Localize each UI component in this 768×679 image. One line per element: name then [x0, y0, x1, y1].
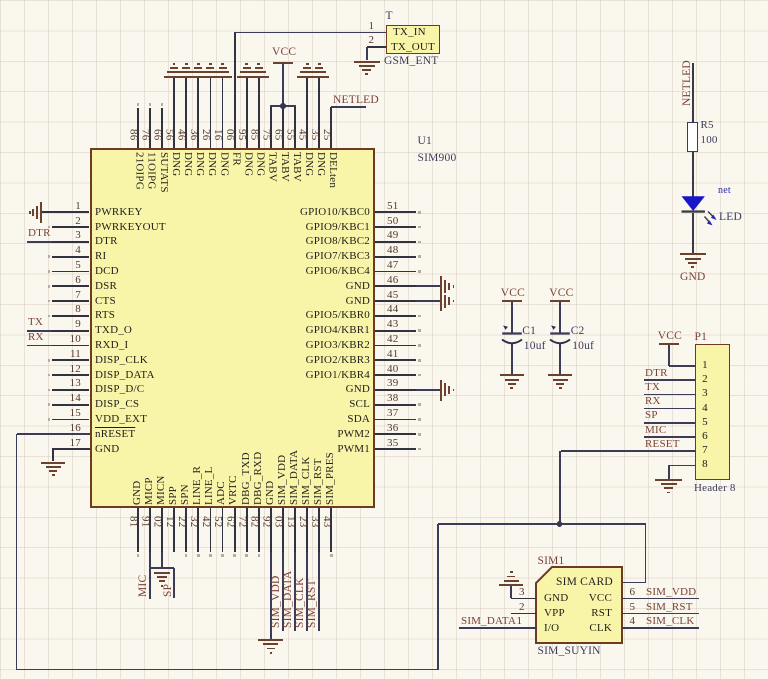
U1 pin 25 ADC	[222, 508, 224, 552]
node SIM_DATA label	[283, 571, 297, 628]
SIM CARD title	[556, 577, 613, 589]
ground (U1 pins 46,45)	[440, 276, 442, 311]
P1 pin 1	[700, 360, 710, 371]
U1 pin 42 GPIO3/KBR2	[375, 345, 416, 347]
U1 pin 17 GND	[52, 448, 89, 450]
U1 pin 24 LINE_L	[210, 508, 212, 552]
connector P1 body	[695, 344, 730, 480]
U1 pin 40 GPIO1/KBR4	[375, 374, 416, 376]
wire U1 pin39 to ground	[416, 389, 441, 391]
U1 pin 2 PWRKEYOUT	[52, 226, 89, 228]
U1 pin 33 SIM_RST	[318, 508, 320, 552]
connector T designator	[386, 11, 393, 23]
power VCC (VBAT)	[272, 47, 296, 59]
node SIM_VDD label	[271, 577, 285, 628]
U1 pin 28 DBG_RXD	[258, 508, 260, 552]
node TX label	[28, 317, 43, 328]
U1 pin 45 GND	[375, 300, 416, 302]
node DTR label	[28, 228, 51, 239]
U1 pin 38 SCL	[375, 404, 416, 406]
wire SIM_CLK (U1 pin 32)	[306, 552, 308, 631]
U1 pin 3 DTR	[52, 241, 89, 243]
wire MIC to P1 pin 6	[644, 436, 695, 438]
ground (C1)	[500, 374, 524, 376]
node SP label (P1)	[645, 410, 658, 421]
U1 pin 56 VBAT	[282, 106, 284, 148]
T pin 2 TX_OUT	[369, 35, 375, 46]
U1 pin 13 DISP_D/C	[52, 389, 89, 391]
wire P1 pin8 to ground	[669, 465, 695, 467]
pin end dots	[48, 226, 51, 229]
ground (LED)	[680, 253, 706, 255]
SIM_SUYIN label	[538, 646, 601, 658]
U1 pin 64 GND	[185, 77, 187, 148]
P1 pin 7	[700, 445, 710, 456]
U1 pin 48 GPIO7/KBC3	[375, 256, 416, 258]
U1 pin 26 VRTC	[234, 508, 236, 552]
U1 pin 68 GPIO12	[137, 108, 139, 148]
SIM1 pin 4 CLK	[622, 627, 700, 629]
ground (U1 pin 29)	[258, 639, 283, 641]
U1 pin 1 PWRKEY	[52, 211, 89, 213]
node DTR label (P1)	[645, 368, 668, 379]
ground (U1 top pins 65, 64, 63, 62, 61)	[164, 76, 232, 78]
node SIM_DATA label	[461, 616, 516, 627]
U1 pin 52 netLED	[330, 107, 332, 148]
node GSM_ENT label	[384, 56, 438, 68]
wire U1 pin17 GND down	[53, 448, 90, 450]
U1 pin 46 GND	[375, 285, 416, 287]
wire RX to P1 pin 4	[644, 408, 695, 410]
node MIC label	[138, 572, 152, 597]
U1 value label SIM900	[418, 153, 457, 165]
U1 pin 50 GPIO9/KBC1	[375, 226, 416, 228]
SIM1 pin 3 GND	[519, 587, 525, 598]
node TX label (P1)	[645, 382, 660, 393]
power VCC (C1)	[501, 288, 525, 300]
connector P1 designator	[695, 332, 708, 344]
wire nRESET left vertical	[16, 434, 18, 669]
connector SIM1 designator	[538, 556, 565, 568]
wire RESET up to P1 pin7	[559, 451, 561, 524]
P1 pin 5	[700, 417, 710, 428]
node LED label	[719, 212, 742, 224]
ground (T pin 2)	[354, 61, 380, 63]
wire RESET horizontal to SIM	[438, 523, 647, 525]
U1 pin 65 GND	[173, 77, 175, 148]
connector SIM1 body (SIM CARD)	[535, 566, 624, 645]
U1 pin 55 VBAT	[294, 106, 296, 148]
node SIM_RST label	[307, 577, 321, 628]
SIM1 pin 2 VPP	[519, 602, 525, 613]
U1 pin 22 SPN	[185, 508, 187, 552]
U1 pin 32 SIM_CLK	[306, 508, 308, 552]
U1 designator label	[418, 136, 432, 148]
U1 pin 18 GND	[137, 508, 139, 552]
wire U1 pin46 to ground	[416, 285, 441, 287]
U1 pin 15 VDD_EXT	[52, 419, 89, 421]
wire down to SIM VCC	[645, 524, 647, 583]
wire DTR	[27, 241, 52, 243]
P1 pin 4	[700, 403, 710, 414]
node RESET junction	[557, 521, 563, 527]
T pin 1 TX_IN	[369, 21, 375, 32]
P1 pin 2	[700, 374, 710, 385]
wire VCC to P1 pin1	[668, 345, 670, 366]
node SIM_CLK label	[295, 577, 309, 628]
U1 pin 34 SIM_PRES	[330, 508, 332, 552]
wire SIM_DATA (U1 pin 31)	[294, 552, 296, 631]
wire VBAT bus	[270, 105, 296, 107]
node VBAT-VCC junction	[280, 103, 286, 109]
U1 pin 41 GPIO2/KBR3	[375, 359, 416, 361]
U1 pin 36 PWM2	[375, 433, 416, 435]
wire RF to T connector	[234, 32, 386, 34]
U1 pin 11 DISP_CLK	[52, 359, 89, 361]
wire RESET to P1 pin 7	[561, 450, 695, 452]
wire SP to P1 pin 5	[644, 422, 695, 424]
U1 pin 12 DISP_DATA	[52, 374, 89, 376]
IC U1 SIM900 body	[90, 148, 376, 508]
U1 pin 14 DISP_CS	[52, 404, 89, 406]
wire NETLED to R5	[692, 63, 694, 122]
ground (U1 pin 39)	[440, 380, 442, 401]
U1 pin 27 DBG_TXD	[246, 508, 248, 552]
U1 pin 4 RI	[52, 256, 89, 258]
wire VCC to C1	[511, 302, 513, 333]
P1 pin 8	[700, 459, 710, 470]
U1 pin 51 GPIO10/KBC0	[375, 211, 416, 213]
wire U1 pin45 to ground	[416, 300, 441, 302]
U1 pin 35 PWM1	[375, 448, 416, 450]
connector T body	[386, 25, 440, 55]
wire DTR to P1 pin 2	[644, 379, 695, 381]
U1 pin 8 RTS	[52, 315, 89, 317]
wire VCC to C2	[559, 302, 561, 333]
node SP label	[163, 580, 177, 597]
U1 pin 39 GND	[375, 389, 416, 391]
U1 pin 43 GPIO4/KBR1	[375, 330, 416, 332]
U1 pin 49 GPIO8/KBC2	[375, 241, 416, 243]
node SIM_CLK label (SIM1)	[646, 616, 694, 627]
wire SP (U1 pin21)	[173, 568, 175, 598]
SIM1 pin 5 RST	[622, 613, 700, 615]
node RX label	[28, 332, 44, 343]
ground (C2)	[548, 374, 572, 376]
wire SIM_VDD (U1 pin 30)	[282, 552, 284, 631]
U1 pin 19 MICP	[149, 508, 151, 552]
LED D-net (blue LED)	[676, 184, 746, 230]
node GND label (LED)	[680, 272, 706, 284]
wire U1 pin20 to ground	[161, 552, 163, 568]
node net label	[718, 186, 731, 196]
wire netLED	[331, 106, 367, 108]
node RESET label (P1)	[645, 439, 680, 450]
ground (P1 pin 8)	[655, 479, 682, 481]
node SIM_RST label (SIM1)	[646, 602, 693, 613]
node NETLED label (R5)	[682, 54, 696, 106]
ground (SIM1 pin 3)	[499, 584, 523, 586]
wire SIM_RST (U1 pin 33)	[318, 552, 320, 631]
wire U1 pin29 GND down	[270, 552, 272, 639]
U1 pin 63 GND	[197, 77, 199, 148]
U1 pin 30 SIM_VDD	[282, 508, 284, 552]
wire nRESET bottom rail	[17, 669, 439, 671]
ground (U1 top pins 54, 53)	[297, 76, 329, 78]
P1 pin 6	[700, 431, 710, 442]
node SIM_VDD label (SIM1)	[646, 587, 696, 598]
wire MIC (U1 pin19)	[149, 552, 151, 599]
U1 pin 62 GND	[210, 77, 212, 148]
power VCC (P1)	[658, 331, 682, 343]
U1 pin 61 GND	[222, 77, 224, 148]
U1 pin 67 GPIO11	[149, 108, 151, 148]
SIM1 pin 6 VCC	[622, 598, 700, 600]
U1 pin 53 GND	[318, 77, 320, 148]
P1 pin 3	[700, 388, 710, 399]
wire TX	[27, 330, 52, 332]
U1 pin 57 VBAT	[270, 106, 272, 148]
U1 pin 16 nRESET	[52, 433, 89, 435]
wire SIM1 pin3 to ground	[510, 585, 512, 598]
U1 pin 31 SIM_DATA	[294, 508, 296, 552]
wire nRESET rail up	[437, 524, 439, 670]
power VCC (C2)	[549, 288, 573, 300]
wire LED to ground	[692, 213, 694, 254]
ground (U1 pin 17)	[41, 462, 65, 464]
wire R5 to LED	[692, 152, 694, 197]
U1 pin 21 SPP	[173, 508, 175, 552]
SIM1 pin 1 I/O	[517, 616, 523, 627]
P1 value label Header 8	[694, 483, 736, 494]
U1 pin 44 GPIO5/KBR0	[375, 315, 416, 317]
wire T pin2 to ground	[366, 47, 368, 61]
U1 pin 58 GND	[258, 77, 260, 148]
U1 pin 6 DSR	[52, 285, 89, 287]
U1 pin 23 LINE_R	[197, 508, 199, 552]
U1 pin 60 RF	[234, 33, 236, 148]
U1 pin 54 GND	[306, 77, 308, 148]
U1 pin 5 DCD	[52, 271, 89, 273]
wire RX	[27, 345, 52, 347]
U1 pin 7 CTS	[52, 300, 89, 302]
ground (U1 pin 1 PWRKEY)	[42, 211, 52, 213]
wire C2 to ground	[559, 344, 561, 374]
node NETLED label	[333, 95, 379, 107]
wire C1 to ground	[511, 344, 513, 374]
U1 pin 9 TXD_O	[52, 330, 89, 332]
U1 pin 20 MICN	[161, 508, 163, 552]
ground (U1 pin 20 MICN)	[154, 572, 170, 574]
ground (U1 top pins 59, 58)	[237, 76, 269, 78]
resistor R5 100	[687, 122, 698, 152]
U1 pin 10 RXD_I	[52, 345, 89, 347]
capacitor C1 10uf	[500, 322, 526, 348]
U1 pin 47 GPIO6/KBC4	[375, 271, 416, 273]
node MIC label (P1)	[645, 425, 666, 436]
U1 pin 29 GND	[270, 508, 272, 552]
wire TX to P1 pin 3	[644, 394, 695, 396]
wire nRESET from U1 pin16	[17, 433, 90, 435]
U1 pin 37 SDA	[375, 419, 416, 421]
node RX label (P1)	[645, 396, 661, 407]
capacitor C2 10uf	[548, 322, 574, 348]
U1 pin 66 STATUS	[161, 108, 163, 148]
wire speaker bracket	[150, 567, 174, 569]
U1 pin 59 GND	[246, 77, 248, 148]
